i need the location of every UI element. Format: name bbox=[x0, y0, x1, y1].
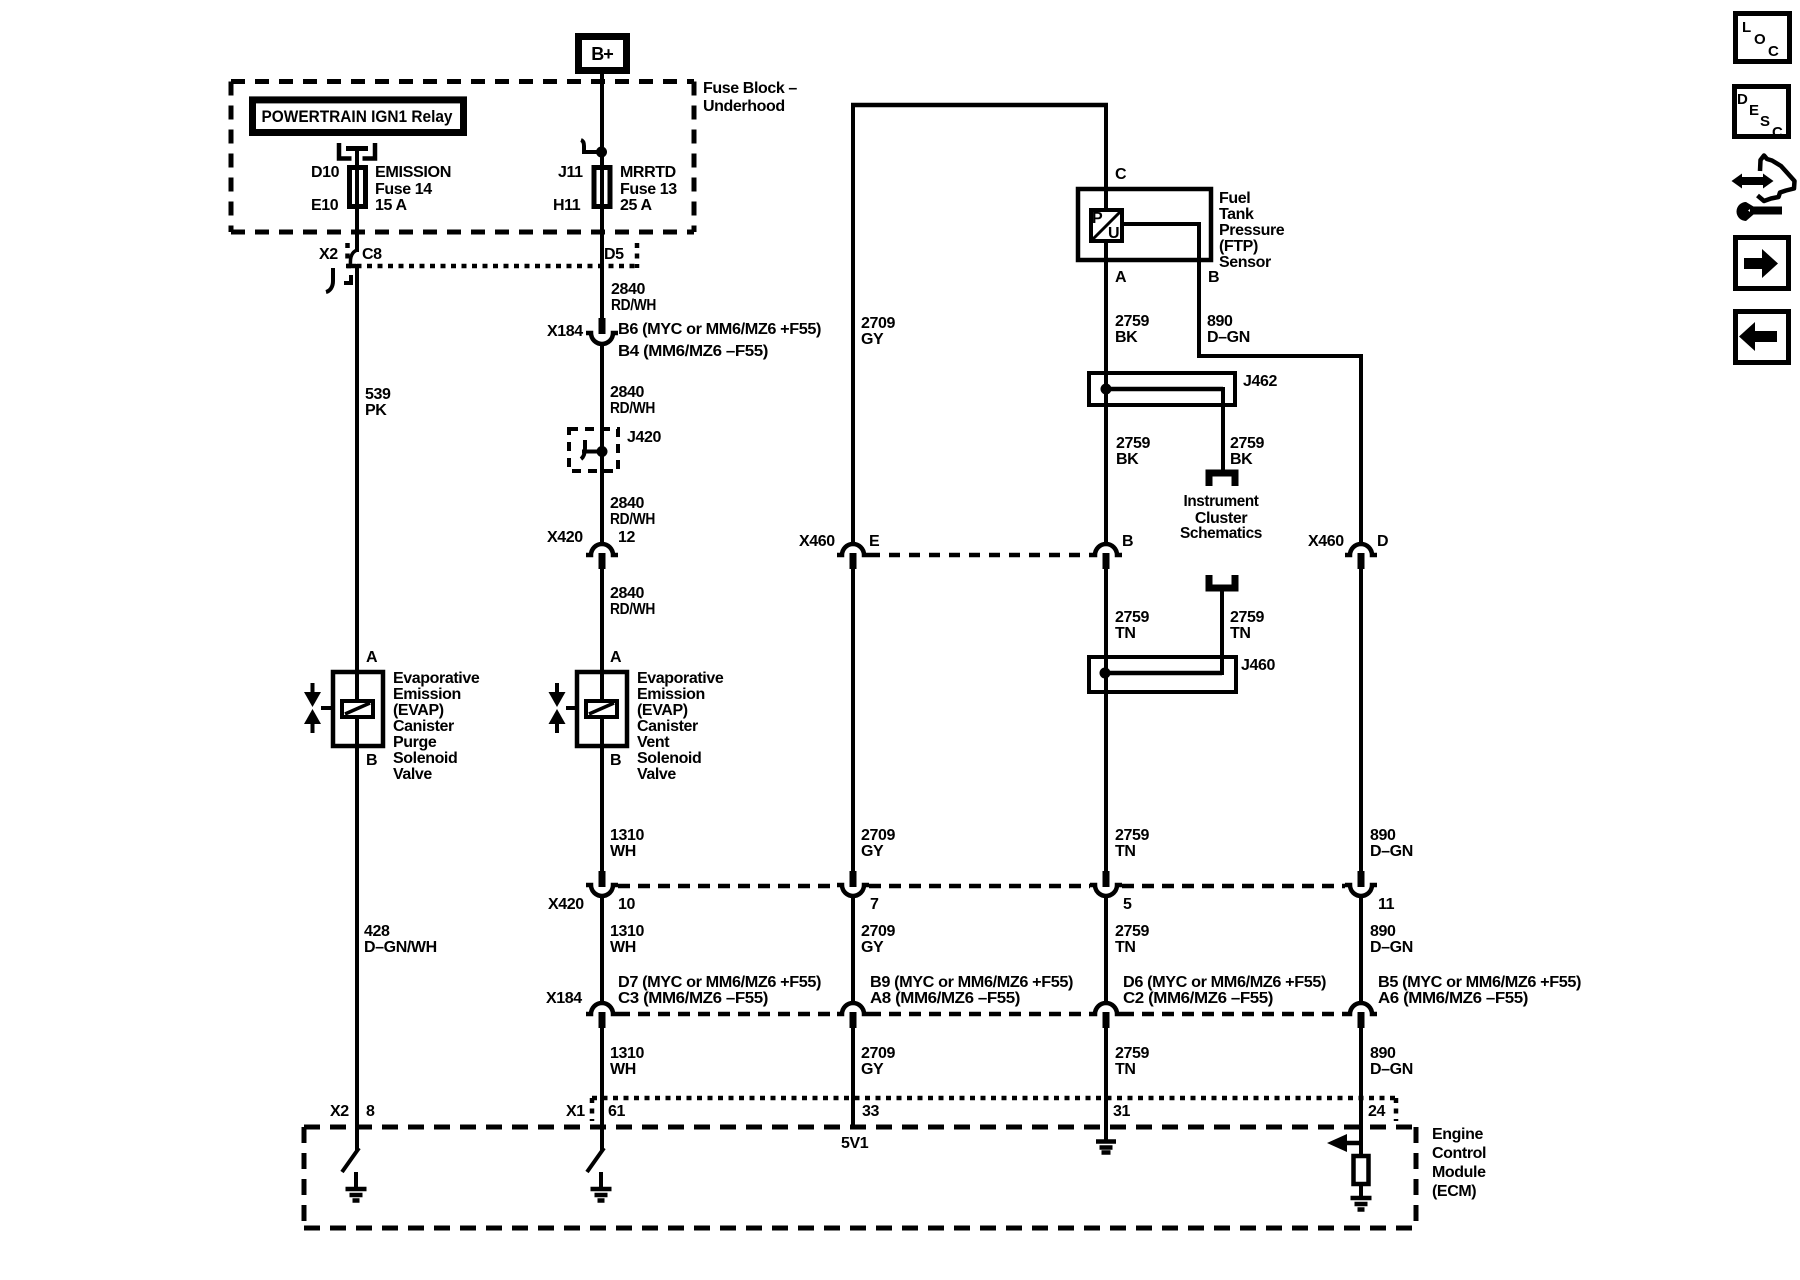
svg-text:O: O bbox=[1754, 31, 1766, 48]
svg-text:B9 (MYC or MM6/MZ6 +F55): B9 (MYC or MM6/MZ6 +F55) bbox=[870, 974, 1073, 991]
svg-text:C8: C8 bbox=[362, 246, 382, 263]
X184 row dashed line bbox=[618, 1012, 1345, 1017]
wire col4 X420 row to X184 row bbox=[1104, 895, 1108, 1004]
svg-text:TN: TN bbox=[1115, 843, 1136, 860]
svg-text:D6 (MYC or MM6/MZ6 +F55): D6 (MYC or MM6/MZ6 +F55) bbox=[1123, 974, 1326, 991]
ground col2 bbox=[591, 1172, 612, 1201]
X420 pin 12 in-line connector (cup above, pin below) bbox=[586, 544, 618, 569]
fuse 14 EMISSION bbox=[311, 164, 451, 214]
svg-text:GY: GY bbox=[861, 843, 884, 860]
svg-text:B: B bbox=[1122, 533, 1133, 550]
svg-text:Schematics: Schematics bbox=[1180, 525, 1262, 542]
svg-text:GY: GY bbox=[861, 331, 884, 348]
svg-text:D: D bbox=[1737, 91, 1748, 108]
Fuse Block - Underhood label bbox=[703, 80, 797, 115]
svg-text:X184: X184 bbox=[547, 323, 583, 340]
POWERTRAIN IGN1 Relay box bbox=[253, 100, 464, 133]
svg-text:31: 31 bbox=[1113, 1103, 1130, 1120]
svg-text:J460: J460 bbox=[1241, 657, 1275, 674]
svg-text:(EVAP): (EVAP) bbox=[637, 702, 688, 719]
ECM label bbox=[1432, 1126, 1486, 1200]
Engine Control Module dashed box bbox=[304, 1127, 1416, 1228]
svg-text:D–GN: D–GN bbox=[1370, 939, 1413, 956]
wire label 890 D-GN bbox=[1370, 1045, 1413, 1078]
svg-text:1310: 1310 bbox=[610, 827, 644, 844]
wire col2 X420 row to X184 row bbox=[600, 895, 604, 1004]
wire label 1310 WH (above X420 row) bbox=[610, 827, 644, 860]
wire col2 X420-12 to vent solenoid bbox=[600, 568, 604, 702]
B+ battery feed box bbox=[579, 37, 627, 71]
wire label 2840 RD/WH (below J420) bbox=[610, 495, 655, 528]
svg-text:Emission: Emission bbox=[637, 686, 705, 703]
ground col4 internal bbox=[1096, 1142, 1116, 1153]
back arrow sidebar icon bbox=[1736, 312, 1789, 363]
X420-5 connector symbol bbox=[1090, 871, 1122, 896]
svg-text:Engine: Engine bbox=[1432, 1126, 1483, 1143]
svg-text:PK: PK bbox=[365, 402, 387, 419]
svg-text:5V1: 5V1 bbox=[841, 1135, 869, 1152]
wire label 2840 RD/WH (upper) bbox=[611, 281, 656, 314]
LOC sidebar icon bbox=[1736, 14, 1790, 62]
wire label 890 D-GN bbox=[1370, 923, 1413, 956]
X184 connector row labels bbox=[546, 974, 1581, 1007]
svg-text:2840: 2840 bbox=[610, 585, 644, 602]
svg-text:Purge: Purge bbox=[393, 734, 437, 751]
X460 in-line connector row E B D bbox=[799, 533, 1388, 550]
J462 splice pack bbox=[1089, 373, 1235, 405]
wire col4 top bus into P/U transducer bbox=[1104, 103, 1108, 212]
svg-text:D7 (MYC or MM6/MZ6 +F55): D7 (MYC or MM6/MZ6 +F55) bbox=[618, 974, 821, 991]
svg-text:U: U bbox=[1108, 225, 1120, 242]
svg-text:Emission: Emission bbox=[393, 686, 461, 703]
wire col4 transducer down to X460-B bbox=[1104, 239, 1108, 546]
X460-D connector symbol bbox=[1345, 544, 1377, 569]
X184 row connector col3 bbox=[837, 1003, 869, 1028]
svg-text:24: 24 bbox=[1368, 1103, 1385, 1120]
wire col5 X460-D to X420 row bbox=[1359, 568, 1363, 873]
svg-text:Tank: Tank bbox=[1219, 206, 1254, 223]
svg-text:WH: WH bbox=[610, 939, 636, 956]
wire labels 2759 TN above J460 bbox=[1115, 609, 1264, 642]
fuse 13 feed tap with junction dot bbox=[581, 140, 607, 158]
svg-text:J420: J420 bbox=[627, 429, 661, 446]
svg-text:10: 10 bbox=[618, 896, 635, 913]
svg-text:Underhood: Underhood bbox=[703, 98, 785, 115]
svg-text:Control: Control bbox=[1432, 1145, 1486, 1162]
ECM pin labels bbox=[330, 1103, 1385, 1120]
svg-text:15 A: 15 A bbox=[375, 197, 407, 214]
svg-text:Fuse 14: Fuse 14 bbox=[375, 181, 432, 198]
svg-text:C3 (MM6/MZ6 –F55): C3 (MM6/MZ6 –F55) bbox=[618, 990, 768, 1007]
svg-text:WH: WH bbox=[610, 843, 636, 860]
svg-text:B: B bbox=[610, 752, 621, 769]
ECM signal arrow col5 bbox=[1327, 1134, 1362, 1152]
wire col4 X184 row to ECM ground bbox=[1104, 1027, 1108, 1142]
svg-text:12: 12 bbox=[618, 529, 635, 546]
wire col2 X184 to X420-12 bbox=[600, 342, 604, 546]
wire label 2759 BK (upper col4) bbox=[1115, 313, 1149, 346]
svg-text:POWERTRAIN IGN1 Relay: POWERTRAIN IGN1 Relay bbox=[262, 107, 453, 126]
P/U pressure transducer symbol bbox=[1091, 210, 1122, 242]
svg-text:890: 890 bbox=[1370, 923, 1396, 940]
svg-text:61: 61 bbox=[608, 1103, 625, 1120]
svg-text:C: C bbox=[1772, 124, 1783, 141]
ECM driver switch col1 bbox=[342, 1148, 359, 1172]
svg-text:BK: BK bbox=[1116, 451, 1139, 468]
wire label 428 D-GN/WH bbox=[364, 923, 437, 956]
wire label 2709 GY (upper col3) bbox=[861, 315, 895, 348]
wire label 2759 TN bbox=[1115, 923, 1149, 956]
svg-text:Instrument: Instrument bbox=[1184, 493, 1260, 510]
wire col1 purge solenoid to ECM bbox=[355, 716, 359, 1151]
svg-text:X460: X460 bbox=[799, 533, 835, 550]
svg-text:D–GN: D–GN bbox=[1370, 1061, 1413, 1078]
svg-text:(ECM): (ECM) bbox=[1432, 1183, 1476, 1200]
svg-text:Pressure: Pressure bbox=[1219, 222, 1285, 239]
svg-text:890: 890 bbox=[1370, 827, 1396, 844]
wire col2 X184 row to ECM bbox=[600, 1027, 604, 1151]
svg-text:E10: E10 bbox=[311, 197, 339, 214]
svg-text:Fuel: Fuel bbox=[1219, 190, 1250, 207]
svg-text:J462: J462 bbox=[1243, 373, 1277, 390]
svg-text:Solenoid: Solenoid bbox=[637, 750, 701, 767]
wire label 2840 RD/WH (above J420) bbox=[610, 384, 655, 417]
ground col1 bbox=[346, 1172, 367, 1201]
Fuel Tank Pressure sensor box bbox=[1078, 166, 1219, 286]
svg-text:Valve: Valve bbox=[393, 766, 432, 783]
svg-text:Fuse 13: Fuse 13 bbox=[620, 181, 677, 198]
Instrument Cluster Schematics reference label bbox=[1180, 493, 1262, 542]
X460-E connector symbol bbox=[837, 544, 869, 569]
X460 dashed connector line bbox=[869, 553, 1090, 558]
svg-text:B5 (MYC or MM6/MZ6 +F55): B5 (MYC or MM6/MZ6 +F55) bbox=[1378, 974, 1581, 991]
svg-text:(FTP): (FTP) bbox=[1219, 238, 1258, 255]
wire col5 X420 row to X184 row bbox=[1359, 895, 1363, 1004]
svg-text:539: 539 bbox=[365, 386, 391, 403]
svg-text:890: 890 bbox=[1370, 1045, 1396, 1062]
svg-text:A: A bbox=[1115, 269, 1127, 286]
svg-text:Vent: Vent bbox=[637, 734, 670, 751]
svg-text:C: C bbox=[1115, 166, 1127, 183]
ground col5 bbox=[1351, 1184, 1372, 1210]
off-page bracket upper bbox=[1209, 473, 1235, 486]
svg-text:2759: 2759 bbox=[1115, 609, 1149, 626]
svg-text:TN: TN bbox=[1230, 625, 1251, 642]
890 D-GN wire from transducer to col5 bbox=[1122, 222, 1361, 546]
svg-text:D–GN: D–GN bbox=[1207, 329, 1250, 346]
wire label 1310 WH bbox=[610, 923, 644, 956]
wire col1 relay to fuse14 and down to X2 row bbox=[355, 158, 359, 252]
svg-text:E: E bbox=[1749, 102, 1759, 119]
wiring route sidebar icon bbox=[1732, 156, 1795, 222]
svg-text:Fuse Block –: Fuse Block – bbox=[703, 80, 797, 97]
svg-text:X420: X420 bbox=[547, 529, 583, 546]
svg-text:X184: X184 bbox=[546, 990, 582, 1007]
svg-text:A: A bbox=[610, 649, 622, 666]
svg-text:2709: 2709 bbox=[861, 827, 895, 844]
svg-text:TN: TN bbox=[1115, 1061, 1136, 1078]
svg-text:X460: X460 bbox=[1308, 533, 1344, 550]
svg-text:X1: X1 bbox=[566, 1103, 585, 1120]
svg-text:2709: 2709 bbox=[861, 315, 895, 332]
svg-text:MRRTD: MRRTD bbox=[620, 164, 676, 181]
svg-text:X420: X420 bbox=[548, 896, 584, 913]
svg-text:5: 5 bbox=[1123, 896, 1132, 913]
svg-text:H11: H11 bbox=[553, 197, 581, 214]
branch wire J462 to instrument cluster reference bbox=[1221, 387, 1225, 470]
svg-text:C2 (MM6/MZ6 –F55): C2 (MM6/MZ6 –F55) bbox=[1123, 990, 1273, 1007]
svg-text:D–GN/WH: D–GN/WH bbox=[364, 939, 437, 956]
svg-text:Canister: Canister bbox=[637, 718, 698, 735]
svg-text:Valve: Valve bbox=[637, 766, 676, 783]
X420-10 connector symbol bbox=[586, 871, 618, 896]
wire label 2759 TN bbox=[1115, 1045, 1149, 1078]
EVAP purge solenoid label bbox=[393, 670, 480, 783]
wire col5 X184 row to ECM bbox=[1359, 1027, 1363, 1158]
svg-text:EMISSION: EMISSION bbox=[375, 164, 451, 181]
svg-text:Sensor: Sensor bbox=[1219, 254, 1271, 271]
wire label 1310 WH bbox=[610, 1045, 644, 1078]
svg-text:J11: J11 bbox=[558, 164, 583, 181]
svg-text:2840: 2840 bbox=[611, 281, 645, 298]
svg-text:RD/WH: RD/WH bbox=[610, 400, 655, 417]
ECM pull-up resistor col5 bbox=[1354, 1156, 1369, 1184]
svg-text:S: S bbox=[1760, 113, 1770, 130]
svg-text:11: 11 bbox=[1378, 896, 1395, 913]
EVAP canister vent solenoid valve (col2) bbox=[549, 649, 628, 769]
svg-text:2840: 2840 bbox=[610, 384, 644, 401]
EVAP canister purge solenoid valve (col1) bbox=[304, 649, 383, 769]
EVAP vent solenoid label bbox=[637, 670, 724, 783]
svg-text:RD/WH: RD/WH bbox=[610, 601, 655, 618]
svg-text:C: C bbox=[1768, 43, 1779, 60]
svg-text:WH: WH bbox=[610, 1061, 636, 1078]
svg-text:E: E bbox=[869, 533, 880, 550]
X460-B connector symbol bbox=[1090, 544, 1122, 569]
svg-text:1310: 1310 bbox=[610, 923, 644, 940]
svg-text:A8 (MM6/MZ6 –F55): A8 (MM6/MZ6 –F55) bbox=[870, 990, 1020, 1007]
top bus wire linking col3 and col4 bbox=[851, 103, 1108, 108]
svg-text:2759: 2759 bbox=[1115, 827, 1149, 844]
X420 row labels bbox=[548, 896, 1395, 913]
X420 harness connector row dashed line bbox=[618, 884, 1345, 889]
svg-text:Solenoid: Solenoid bbox=[393, 750, 457, 767]
wire col4 X460-B through J460 to X420 row bbox=[1104, 568, 1108, 873]
svg-text:GY: GY bbox=[861, 939, 884, 956]
wire labels 2759 BK below J462 bbox=[1116, 435, 1264, 468]
svg-text:Evaporative: Evaporative bbox=[637, 670, 724, 687]
svg-text:2759: 2759 bbox=[1230, 435, 1264, 452]
wire label 890 D-GN (upper) bbox=[1207, 313, 1250, 346]
ECM driver switch col2 bbox=[587, 1148, 604, 1172]
wire label 539 PK bbox=[365, 386, 391, 419]
wire label 2759 TN (mid col4) bbox=[1115, 827, 1149, 860]
svg-text:1310: 1310 bbox=[610, 1045, 644, 1062]
svg-text:BK: BK bbox=[1115, 329, 1138, 346]
svg-text:B6 (MYC or MM6/MZ6 +F55): B6 (MYC or MM6/MZ6 +F55) bbox=[618, 321, 821, 338]
forward arrow sidebar icon bbox=[1736, 238, 1789, 289]
X420-11 connector symbol bbox=[1345, 871, 1377, 896]
svg-text:8: 8 bbox=[366, 1103, 375, 1120]
branch wire bracket to J460 bbox=[1220, 589, 1224, 675]
DESC sidebar icon bbox=[1735, 87, 1789, 142]
Fuse Block - Underhood dashed box bbox=[231, 82, 694, 233]
relay contact terminal symbol bbox=[339, 143, 375, 166]
wire col3 X420 row to X184 row bbox=[851, 895, 855, 1004]
X2 / C8 / D5 dotted in-line connector row bbox=[346, 243, 639, 268]
X184 row connector col2 bbox=[586, 1003, 618, 1028]
svg-text:890: 890 bbox=[1207, 313, 1233, 330]
wire col3 X460-E to X420 row bbox=[851, 568, 855, 873]
svg-text:X2: X2 bbox=[319, 246, 338, 263]
svg-text:RD/WH: RD/WH bbox=[611, 297, 656, 314]
wire label 2709 GY (mid col3) bbox=[861, 827, 895, 860]
svg-text:Evaporative: Evaporative bbox=[393, 670, 480, 687]
svg-text:B+: B+ bbox=[591, 44, 613, 64]
wire col3 top bus to X460-E bbox=[851, 103, 855, 546]
C8 unplugged connector half stub bbox=[326, 268, 351, 292]
svg-text:2759: 2759 bbox=[1230, 609, 1264, 626]
off-page bracket lower bbox=[1209, 575, 1235, 588]
J460 splice pack bbox=[1089, 657, 1236, 692]
svg-text:2759: 2759 bbox=[1116, 435, 1150, 452]
wire label 2709 GY bbox=[861, 1045, 895, 1078]
X1 ECM connector dotted row bbox=[592, 1098, 1397, 1121]
svg-text:D: D bbox=[1377, 533, 1388, 550]
X184 in-line connector (pin above, cup below) col2 bbox=[586, 318, 618, 344]
svg-text:428: 428 bbox=[364, 923, 390, 940]
svg-text:B: B bbox=[1208, 269, 1219, 286]
svg-text:Canister: Canister bbox=[393, 718, 454, 735]
svg-text:7: 7 bbox=[870, 896, 879, 913]
wire label 2709 GY bbox=[861, 923, 895, 956]
wire label 2840 RD/WH (below X420-12) bbox=[610, 585, 655, 618]
svg-text:D–GN: D–GN bbox=[1370, 843, 1413, 860]
svg-text:GY: GY bbox=[861, 1061, 884, 1078]
X184 row connector col4 bbox=[1090, 1003, 1122, 1028]
X420-7 connector symbol bbox=[837, 871, 869, 896]
FTP sensor label bbox=[1219, 190, 1285, 271]
svg-text:(EVAP): (EVAP) bbox=[393, 702, 444, 719]
svg-text:2709: 2709 bbox=[861, 1045, 895, 1062]
fuse 13 MRRTD bbox=[553, 164, 677, 214]
wire col2 B+ down through fuse13 to X184 pin bbox=[600, 73, 604, 319]
J420 splice hook and junction dot bbox=[581, 440, 608, 459]
svg-text:RD/WH: RD/WH bbox=[610, 511, 655, 528]
svg-text:X2: X2 bbox=[330, 1103, 349, 1120]
svg-text:L: L bbox=[1742, 19, 1751, 36]
wire col2 vent solenoid to X420 row bbox=[600, 716, 604, 873]
svg-text:D10: D10 bbox=[311, 164, 340, 181]
svg-text:2709: 2709 bbox=[861, 923, 895, 940]
svg-text:2759: 2759 bbox=[1115, 923, 1149, 940]
C8 pass-through terminal hook on col1 wire bbox=[347, 250, 357, 266]
svg-text:A6 (MM6/MZ6 –F55): A6 (MM6/MZ6 –F55) bbox=[1378, 990, 1528, 1007]
svg-text:25 A: 25 A bbox=[620, 197, 652, 214]
svg-text:TN: TN bbox=[1115, 625, 1136, 642]
svg-text:BK: BK bbox=[1230, 451, 1253, 468]
svg-text:Module: Module bbox=[1432, 1164, 1486, 1181]
J420 splice dashed box bbox=[569, 429, 618, 471]
svg-text:TN: TN bbox=[1115, 939, 1136, 956]
svg-text:2759: 2759 bbox=[1115, 1045, 1149, 1062]
wire col3 X184 row to ECM bbox=[851, 1027, 855, 1127]
wire col1 X2 row to purge solenoid bbox=[355, 264, 359, 702]
svg-text:D5: D5 bbox=[604, 246, 624, 263]
svg-text:2840: 2840 bbox=[610, 495, 644, 512]
svg-text:P: P bbox=[1092, 210, 1103, 227]
svg-text:2759: 2759 bbox=[1115, 313, 1149, 330]
wire label 890 D-GN (mid col5) bbox=[1370, 827, 1413, 860]
X184 row connector col5 bbox=[1345, 1003, 1377, 1028]
svg-text:33: 33 bbox=[862, 1103, 879, 1120]
svg-text:B: B bbox=[366, 752, 377, 769]
svg-text:B4 (MM6/MZ6 –F55): B4 (MM6/MZ6 –F55) bbox=[618, 343, 768, 360]
svg-text:A: A bbox=[366, 649, 378, 666]
